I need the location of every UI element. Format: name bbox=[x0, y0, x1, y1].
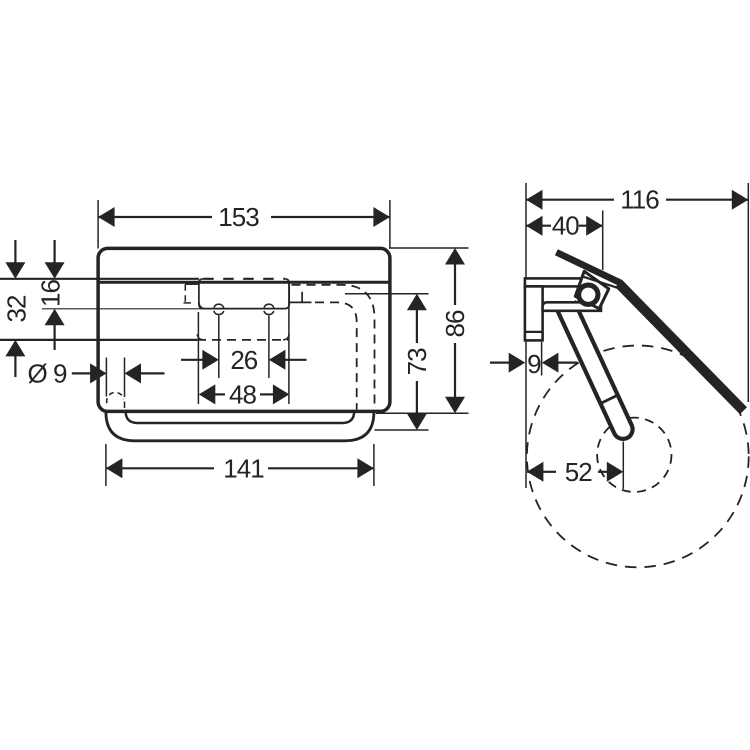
dim 9 extension line bbox=[541, 342, 543, 376]
dim 26 arrows bbox=[181, 359, 203, 361]
screw centre tick left hole bbox=[215, 308, 223, 310]
dim 40 extension line bbox=[602, 211, 604, 271]
dim 116 line bbox=[526, 199, 614, 201]
dim 32 arrows bbox=[14, 240, 16, 263]
svg-text:86: 86 bbox=[440, 310, 470, 337]
hidden bracket tab vertical (dashed) bbox=[184, 284, 186, 303]
dim 48 arrows bbox=[199, 384, 216, 404]
screw centre line dashed mid bbox=[227, 308, 262, 310]
hidden cover upper curve (dashed) bbox=[292, 285, 375, 410]
screw hole left bbox=[214, 304, 224, 314]
dim 153 arrows bbox=[98, 207, 115, 227]
svg-text:52: 52 bbox=[565, 457, 592, 487]
pivot ring bbox=[576, 283, 600, 307]
dim 141 extension lines bbox=[105, 444, 107, 486]
wall bracket plate bbox=[525, 278, 583, 286]
dim 141 line bbox=[106, 467, 214, 469]
line end hook right of dashed bottom bbox=[283, 334, 289, 340]
cover lid lower segment bbox=[615, 280, 747, 414]
dim 73 extension lines bbox=[345, 293, 429, 295]
svg-text:Ø 9: Ø 9 bbox=[28, 358, 67, 388]
screw hole right bbox=[264, 304, 274, 314]
svg-text:48: 48 bbox=[229, 379, 256, 409]
holder body outline bbox=[98, 248, 390, 411]
svg-text:9: 9 bbox=[527, 349, 541, 379]
dim 73 arrows bbox=[407, 294, 427, 311]
dim 52 extension line bbox=[622, 442, 624, 490]
svg-text:26: 26 bbox=[230, 345, 257, 375]
pivot housing diamond bbox=[575, 271, 609, 308]
arm joint line bbox=[601, 394, 619, 403]
dim 73 line bbox=[416, 310, 418, 343]
dim 86 arrows bbox=[445, 248, 465, 265]
dim 32 bottom line bbox=[0, 339, 197, 341]
svg-text:16: 16 bbox=[35, 280, 65, 307]
dim 153 line bbox=[98, 216, 212, 218]
svg-text:116: 116 bbox=[620, 185, 659, 215]
dim 153 extension lines bbox=[97, 200, 99, 249]
upper reference line solid left part bbox=[0, 278, 199, 280]
paper roll core circle (dashed) bbox=[597, 418, 671, 492]
roll bar outer bbox=[106, 411, 374, 441]
hidden cover bottom edge (dashed) bbox=[197, 339, 289, 341]
hidden edge tick bbox=[301, 292, 303, 303]
hidden cover lower curve (dashed) bbox=[315, 302, 357, 409]
line end hook left of dashed bottom bbox=[197, 334, 203, 340]
svg-text:141: 141 bbox=[223, 453, 264, 483]
mounting plate (solid) bbox=[199, 279, 289, 309]
roll holder arm bbox=[565, 305, 623, 429]
dim 26 extension lines bbox=[218, 316, 220, 379]
screw centre line solid part bbox=[42, 308, 211, 310]
wall line bbox=[525, 183, 527, 488]
svg-text:73: 73 bbox=[402, 348, 432, 375]
wall bracket stem bbox=[525, 286, 543, 340]
dim 86 line bbox=[454, 264, 456, 305]
roll bar inner bbox=[126, 411, 355, 423]
svg-text:153: 153 bbox=[218, 202, 259, 232]
hidden bracket tab foot bbox=[184, 302, 192, 304]
dim 9 leader bbox=[490, 362, 509, 364]
bracket arm bbox=[543, 302, 601, 311]
hidden cover lower edge solid start bbox=[289, 301, 312, 303]
dim dia9 leader bbox=[72, 372, 91, 374]
body joint line thick bbox=[98, 281, 390, 284]
dim dia9 extension lines bbox=[105, 358, 107, 397]
screw centre line dashed right bbox=[277, 308, 290, 310]
dim 52 arrows bbox=[527, 462, 544, 482]
dim 116 arrows bbox=[526, 190, 543, 210]
screw centre tick right hole bbox=[265, 308, 273, 310]
svg-text:40: 40 bbox=[552, 211, 579, 241]
cover lid upper segment bbox=[555, 249, 622, 286]
hidden bracket tab top bbox=[185, 283, 199, 285]
dim 16 arrows bbox=[53, 240, 55, 263]
paper roll outer circle (dashed) bbox=[527, 346, 749, 568]
cover lid inner edge line bbox=[584, 277, 620, 289]
dim 52 line bbox=[543, 471, 556, 473]
dim 116 extension line right bbox=[747, 183, 749, 402]
bracket foot line bbox=[525, 331, 543, 333]
dim 141 arrows bbox=[106, 458, 123, 478]
dia9 screw circle (dashed) bbox=[107, 392, 124, 403]
dim 48 extension lines bbox=[197, 312, 199, 404]
dim 40 line bbox=[526, 225, 551, 227]
dim 86 extension lines bbox=[389, 247, 469, 249]
dim 40 arrows bbox=[526, 216, 543, 236]
svg-text:32: 32 bbox=[2, 295, 32, 322]
hidden plate top edge (dashed) bbox=[203, 278, 285, 280]
line end hook at plate left bbox=[199, 303, 205, 309]
